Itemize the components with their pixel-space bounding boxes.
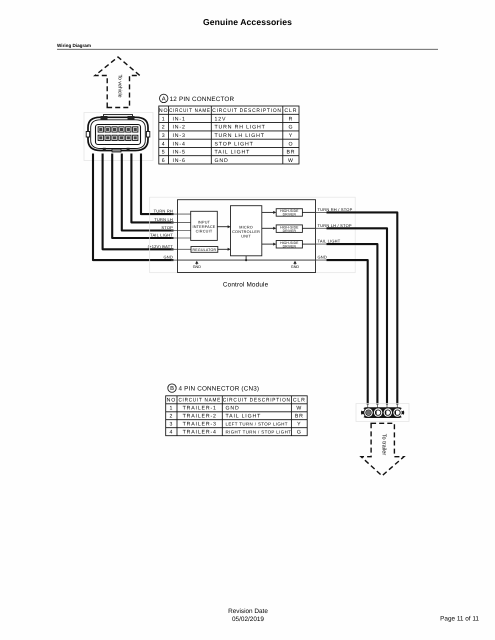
node A bubble xyxy=(160,94,168,102)
svg-text:TAIL LIGHT: TAIL LIGHT xyxy=(150,233,173,238)
svg-text:R: R xyxy=(289,116,294,122)
svg-text:Page 11 of 11: Page 11 of 11 xyxy=(440,616,479,623)
svg-text:3: 3 xyxy=(162,133,166,139)
pin squares row 2 xyxy=(98,135,138,140)
wire IN-5 batt xyxy=(103,154,174,250)
svg-text:MICRO: MICRO xyxy=(239,225,253,229)
svg-text:Y: Y xyxy=(297,422,301,428)
svg-text:GND: GND xyxy=(291,265,300,269)
module outline xyxy=(178,200,316,273)
regulator U2 xyxy=(191,247,218,253)
svg-text:Genuine Accessories: Genuine Accessories xyxy=(203,17,292,27)
svg-text:CIRCUIT DESCRIPTION: CIRCUIT DESCRIPTION xyxy=(212,108,282,114)
table A : 12 pin connector xyxy=(159,94,299,164)
faint placement box xyxy=(84,113,153,161)
svg-text:Control Module: Control Module xyxy=(223,282,269,289)
svg-text:LEFT TURN / STOP LIGHT: LEFT TURN / STOP LIGHT xyxy=(226,422,288,427)
svg-text:TRAILER-4: TRAILER-4 xyxy=(183,430,217,436)
svg-text:REGULATOR: REGULATOR xyxy=(192,248,216,252)
connector outer shell xyxy=(88,117,148,150)
output labels xyxy=(318,207,353,260)
connector B (4-pin flat trailer connector) xyxy=(356,404,409,422)
table B header xyxy=(167,398,306,404)
table A rows xyxy=(162,116,296,163)
svg-text:RIGHT TURN / STOP LIGHT: RIGHT TURN / STOP LIGHT xyxy=(226,430,292,435)
table B rows xyxy=(170,406,304,436)
svg-text:2: 2 xyxy=(162,125,166,131)
wire II to MCU xyxy=(217,226,229,228)
svg-text:DRIVER: DRIVER xyxy=(283,213,297,217)
svg-text:TURN LH: TURN LH xyxy=(154,217,173,222)
svg-text:IN-4: IN-4 xyxy=(173,141,186,147)
svg-text:IN-1: IN-1 xyxy=(173,116,186,122)
svg-text:2: 2 xyxy=(170,414,174,420)
svg-text:CIRCUIT DESCRIPTION: CIRCUIT DESCRIPTION xyxy=(223,398,291,404)
svg-text:GND: GND xyxy=(226,406,240,412)
bottom tab xyxy=(112,149,121,152)
svg-text:BR: BR xyxy=(286,150,295,156)
ground symbol right xyxy=(291,261,300,269)
wire D1 to edge xyxy=(302,211,315,213)
terminal 2 xyxy=(374,408,382,416)
high-side driver D1 xyxy=(276,209,302,217)
svg-text:INTERFACE: INTERFACE xyxy=(192,225,215,229)
svg-text:W: W xyxy=(288,158,294,164)
svg-text:DRIVER: DRIVER xyxy=(283,229,297,233)
svg-text:To trailer: To trailer xyxy=(381,434,388,456)
svg-text:3: 3 xyxy=(170,422,174,428)
svg-text:TURN RH: TURN RH xyxy=(154,209,173,214)
table A header xyxy=(159,108,298,114)
control module xyxy=(150,197,356,273)
svg-text:12 PIN CONNECTOR: 12 PIN CONNECTOR xyxy=(170,96,235,103)
thin lead-ins to module xyxy=(171,214,191,260)
svg-text:BR: BR xyxy=(295,414,304,420)
wire D2 to edge xyxy=(302,227,315,229)
svg-text:5: 5 xyxy=(162,150,166,156)
svg-text:6: 6 xyxy=(162,158,166,164)
svg-text:INPUT: INPUT xyxy=(198,220,211,224)
svg-text:NO: NO xyxy=(167,398,176,404)
svg-text:GND: GND xyxy=(215,158,229,164)
wire gnd xyxy=(327,260,368,404)
wire IN-3 stop xyxy=(122,154,174,231)
section rule xyxy=(57,48,438,50)
svg-text:STOP: STOP xyxy=(161,225,173,230)
svg-text:05/02/2019: 05/02/2019 xyxy=(232,616,264,623)
table A grid xyxy=(159,106,299,164)
top lock tabs xyxy=(101,116,108,120)
faint placement box xyxy=(150,197,356,273)
input labels xyxy=(148,209,174,260)
terminal 4 xyxy=(393,408,401,416)
svg-text:GND: GND xyxy=(193,265,202,269)
wire MCU to D2 xyxy=(262,227,275,229)
svg-text:A: A xyxy=(162,97,166,103)
high-side driver D2 xyxy=(276,225,302,233)
svg-text:TRAILER-1: TRAILER-1 xyxy=(183,406,217,412)
thin lead-outs from module xyxy=(316,212,333,260)
svg-text:1: 1 xyxy=(162,116,166,122)
svg-text:TAIL LIGHT: TAIL LIGHT xyxy=(226,414,262,420)
svg-text:CLR: CLR xyxy=(293,398,306,404)
svg-text:CIRCUIT NAME: CIRCUIT NAME xyxy=(178,398,221,404)
table B grid xyxy=(166,396,308,436)
svg-text:TURN LH / STOP: TURN LH / STOP xyxy=(318,223,352,228)
svg-text:B: B xyxy=(170,386,174,392)
svg-text:TURN LH LIGHT: TURN LH LIGHT xyxy=(215,133,265,139)
svg-text:TURN RH / STOP: TURN RH / STOP xyxy=(318,207,353,212)
svg-text:TAIL LIGHT: TAIL LIGHT xyxy=(215,150,251,156)
wire IN-1 GND xyxy=(93,154,174,261)
svg-text:1: 1 xyxy=(170,406,174,412)
svg-text:Y: Y xyxy=(289,133,293,139)
wire MCU to D1 xyxy=(262,211,275,213)
bottom notches xyxy=(103,148,106,151)
svg-text:TURN RH LIGHT: TURN RH LIGHT xyxy=(215,125,266,131)
svg-text:GND: GND xyxy=(164,255,174,260)
node B bubble xyxy=(168,384,176,392)
svg-text:IN-5: IN-5 xyxy=(173,150,186,156)
terminal 3 xyxy=(384,408,392,416)
wire turn rh/stop xyxy=(327,212,398,404)
connector inner shell xyxy=(91,120,146,149)
end scallops xyxy=(361,408,364,411)
svg-text:TAIL LIGHT: TAIL LIGHT xyxy=(318,239,341,244)
gnd rail xyxy=(178,259,316,261)
svg-text:TRAILER-2: TRAILER-2 xyxy=(183,414,217,420)
svg-text:UNIT: UNIT xyxy=(241,234,251,238)
svg-text:NO: NO xyxy=(159,108,168,114)
svg-text:STOP LIGHT: STOP LIGHT xyxy=(215,141,254,147)
wire turn lh/stop xyxy=(327,228,388,404)
wire IN-2 turn lh xyxy=(131,154,173,223)
svg-text:O: O xyxy=(288,141,293,147)
svg-text:G: G xyxy=(297,430,302,436)
arrow To trailer (dashed, down) xyxy=(361,423,404,476)
svg-text:CONTROLLER: CONTROLLER xyxy=(232,230,260,234)
ground symbol left xyxy=(193,261,202,269)
high-side driver D3 xyxy=(276,241,302,249)
wire D3 to edge xyxy=(302,243,315,245)
svg-text:DRIVER: DRIVER xyxy=(283,244,297,248)
svg-text:TRAILER-3: TRAILER-3 xyxy=(183,422,217,428)
svg-text:CLR: CLR xyxy=(284,108,297,114)
svg-text:4: 4 xyxy=(170,430,174,436)
pin squares row 1 xyxy=(98,127,138,132)
input interface circuit U1 xyxy=(191,211,218,240)
svg-text:Revision Date: Revision Date xyxy=(228,608,268,615)
wire IN-1 turn rh xyxy=(141,154,174,215)
pin cavity xyxy=(96,125,141,145)
left harness wires (connector A to module) xyxy=(93,154,191,261)
wire regulator to MCU xyxy=(218,248,229,250)
svg-text:G: G xyxy=(288,125,293,131)
micro controller unit U3 xyxy=(231,206,262,256)
faint placement box xyxy=(356,404,409,422)
svg-text:IN-2: IN-2 xyxy=(173,125,186,131)
wire MCU to gnd rail xyxy=(245,256,247,260)
wire tail light xyxy=(327,244,378,404)
svg-text:12V: 12V xyxy=(215,116,227,122)
arrow To vehicle (dashed, up) xyxy=(95,57,140,108)
right harness wires (module to connector B) xyxy=(316,212,398,407)
svg-text:IN-6: IN-6 xyxy=(173,158,186,164)
svg-text:4 PIN CONNECTOR (CN3): 4 PIN CONNECTOR (CN3) xyxy=(179,386,260,393)
svg-text:(+12V) BATT: (+12V) BATT xyxy=(148,244,174,249)
svg-text:W: W xyxy=(296,406,302,412)
pin contacts xyxy=(99,128,137,140)
svg-text:IN-3: IN-3 xyxy=(173,133,186,139)
top raised tab xyxy=(104,115,133,120)
svg-text:CIRCUIT: CIRCUIT xyxy=(196,229,213,233)
junction xyxy=(245,259,247,261)
svg-text:CIRCUIT NAME: CIRCUIT NAME xyxy=(169,108,211,114)
connector body xyxy=(361,407,404,418)
svg-text:Wiring Diagram: Wiring Diagram xyxy=(57,43,91,48)
wire MCU to D3 xyxy=(262,243,275,245)
svg-text:To vehicle: To vehicle xyxy=(116,74,122,97)
table B : 4 pin connector xyxy=(166,384,308,436)
svg-text:GND: GND xyxy=(318,255,328,260)
thin stubs into connector B xyxy=(368,404,398,408)
wire IN-4 tail xyxy=(112,154,173,239)
svg-text:4: 4 xyxy=(162,141,166,147)
connector A (12-pin vehicle connector) xyxy=(84,113,153,161)
terminal 1 xyxy=(364,408,372,416)
side notches xyxy=(86,132,89,138)
